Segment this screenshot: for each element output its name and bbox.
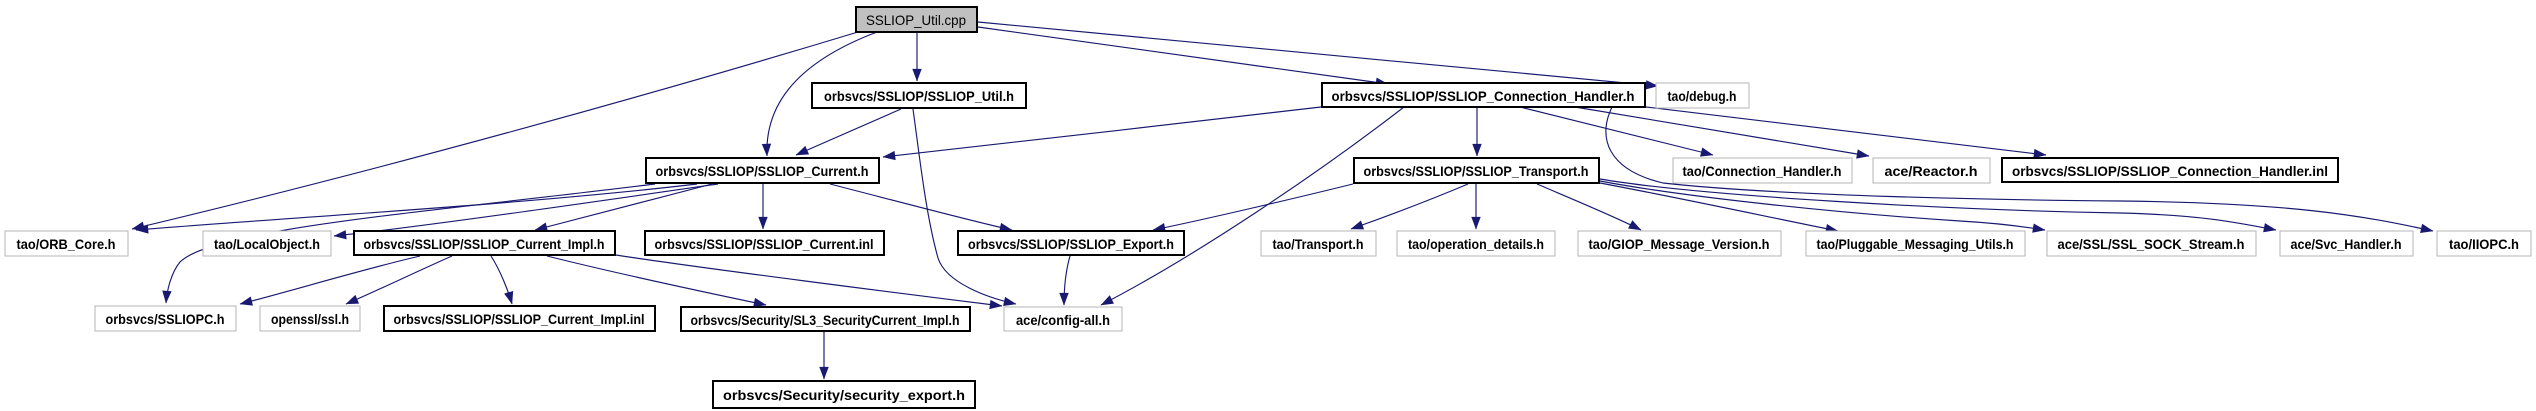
- node tao/Transport.h: [1261, 231, 1376, 256]
- node orbsvcs/Security/security_export.h: [713, 381, 975, 408]
- svg-text:orbsvcs/Security/SL3_SecurityC: orbsvcs/Security/SL3_SecurityCurrent_Imp…: [691, 312, 960, 328]
- node tao/IIOPC.h: [2437, 231, 2531, 256]
- wire SSLIOP_Current.h -> SSLIOP_Export.h: [830, 184, 1012, 230]
- node orbsvcs/SSLIOP/SSLIOP_Current_Impl.h: [354, 231, 615, 255]
- wire SSLIOP_Current_Impl.h -> SSLIOP_Current_Impl.inl: [491, 256, 512, 304]
- svg-text:openssl/ssl.h: openssl/ssl.h: [271, 311, 349, 327]
- svg-text:tao/Transport.h: tao/Transport.h: [1273, 236, 1364, 252]
- svg-text:orbsvcs/SSLIOP/SSLIOP_Util.h: orbsvcs/SSLIOP/SSLIOP_Util.h: [824, 88, 1014, 104]
- wire SSLIOP_Util.h -> SSLIOP_Current.h: [796, 109, 901, 155]
- wire SSLIOP_Util.h -> ace/config-all.h: [913, 109, 1016, 304]
- wire SSLIOP_Current.h -> orbsvcs/SSLIOPC.h: [166, 184, 655, 303]
- svg-text:orbsvcs/Security/security_expo: orbsvcs/Security/security_export.h: [723, 387, 965, 403]
- node tao/Pluggable_Messaging_Utils.h: [1806, 231, 2025, 256]
- svg-text:orbsvcs/SSLIOP/SSLIOP_Current_: orbsvcs/SSLIOP/SSLIOP_Current_Impl.h: [364, 236, 605, 252]
- wire SSLIOP_Transport.h -> tao/GIOP_Message_Version.h: [1537, 184, 1641, 230]
- svg-text:tao/Connection_Handler.h: tao/Connection_Handler.h: [1683, 163, 1842, 179]
- wire SSLIOP_Util.cpp -> tao/debug.h: [978, 22, 1658, 86]
- svg-text:tao/operation_details.h: tao/operation_details.h: [1408, 236, 1544, 252]
- wire SSLIOP_Connection_Handler.h -> ace/Reactor.h: [1575, 107, 1869, 156]
- wire SSLIOP_Connection_Handler.h -> tao/Connection_Handler.h: [1520, 107, 1713, 155]
- wire SSLIOP_Util.cpp -> orbsvcs/SSLIOP/SSLIOP_Connection_Handler.h: [978, 27, 1388, 84]
- wire SSLIOP_Transport.h -> ace/SSL/SSL_SOCK_Stream.h: [1600, 181, 2045, 230]
- wire SSLIOP_Connection_Handler.h -> SSLIOP_Transport.h: [1476, 107, 1478, 156]
- wire SSLIOP_Transport.h -> tao/operation_details.h: [1475, 184, 1477, 229]
- svg-text:orbsvcs/SSLIOP/SSLIOP_Connecti: orbsvcs/SSLIOP/SSLIOP_Connection_Handler…: [1332, 88, 1635, 104]
- svg-text:ace/Reactor.h: ace/Reactor.h: [1885, 163, 1978, 179]
- node orbsvcs/Security/SL3_SecurityCurrent_Impl.h: [681, 307, 970, 331]
- wire SSLIOP_Current.h -> tao/ORB_Core.h: [136, 184, 697, 230]
- svg-text:orbsvcs/SSLIOP/SSLIOP_Export.h: orbsvcs/SSLIOP/SSLIOP_Export.h: [968, 236, 1174, 252]
- svg-text:orbsvcs/SSLIOP/SSLIOP_Current.: orbsvcs/SSLIOP/SSLIOP_Current.inl: [655, 236, 874, 252]
- node tao/Connection_Handler.h: [1673, 158, 1852, 183]
- wire SSLIOP_Util.cpp -> orbsvcs/SSLIOP/SSLIOP_Current.h: [767, 32, 877, 156]
- node openssl/ssl.h: [260, 306, 360, 331]
- wire SSLIOP_Current_Impl.h -> ace/config-all.h: [616, 255, 1002, 306]
- svg-text:orbsvcs/SSLIOP/SSLIOP_Current.: orbsvcs/SSLIOP/SSLIOP_Current.h: [656, 163, 869, 179]
- wire SSLIOP_Current_Impl.h -> openssl/ssl.h: [346, 256, 452, 304]
- node orbsvcs/SSLIOP/SSLIOP_Current.h: [646, 158, 879, 183]
- svg-text:ace/SSL/SSL_SOCK_Stream.h: ace/SSL/SSL_SOCK_Stream.h: [2058, 236, 2245, 252]
- svg-text:tao/LocalObject.h: tao/LocalObject.h: [214, 236, 320, 252]
- svg-text:tao/ORB_Core.h: tao/ORB_Core.h: [17, 236, 116, 252]
- node ace/config-all.h: [1004, 307, 1122, 331]
- node tao/LocalObject.h: [203, 231, 331, 256]
- node tao/debug.h: [1656, 83, 1749, 108]
- svg-text:ace/Svc_Handler.h: ace/Svc_Handler.h: [2291, 236, 2402, 252]
- wire SSLIOP_Current.h -> SSLIOP_Current.inl: [762, 184, 764, 229]
- wire SSLIOP_Current.h -> tao/LocalObject.h: [334, 184, 718, 236]
- node orbsvcs/SSLIOP/SSLIOP_Current_Impl.inl: [384, 306, 655, 331]
- node orbsvcs/SSLIOP/SSLIOP_Transport.h: [1354, 158, 1599, 183]
- wire SSLIOP_Connection_Handler.h -> SSLIOP_Connection_Handler.inl: [1646, 107, 2046, 155]
- svg-text:orbsvcs/SSLIOP/SSLIOP_Current_: orbsvcs/SSLIOP/SSLIOP_Current_Impl.inl: [394, 311, 645, 327]
- node tao/GIOP_Message_Version.h: [1578, 231, 1781, 256]
- svg-text:tao/IIOPC.h: tao/IIOPC.h: [2449, 236, 2519, 252]
- svg-text:orbsvcs/SSLIOPC.h: orbsvcs/SSLIOPC.h: [106, 311, 225, 327]
- wire SSLIOP_Connection_Handler.h -> ace/config-all.h: [1101, 107, 1404, 305]
- node orbsvcs/SSLIOP/SSLIOP_Connection_Handler.h: [1322, 83, 1645, 107]
- wire SSLIOP_Current_Impl.h -> SL3_SecurityCurrent_Impl.h: [547, 256, 766, 305]
- wire SSLIOP_Util.cpp -> tao/ORB_Core.h: [132, 32, 858, 229]
- node ace/Svc_Handler.h: [2280, 231, 2413, 256]
- wire SSLIOP_Current_Impl.h -> orbsvcs/SSLIOPC.h: [240, 256, 420, 304]
- wire SL3_SecurityCurrent_Impl.h -> security_export.h: [823, 331, 825, 379]
- svg-text:tao/Pluggable_Messaging_Utils.: tao/Pluggable_Messaging_Utils.h: [1817, 236, 2014, 252]
- wire SSLIOP_Transport.h -> tao/Pluggable_Messaging_Utils.h: [1600, 183, 1838, 231]
- node orbsvcs/SSLIOP/SSLIOP_Connection_Handler.inl: [2002, 158, 2338, 182]
- node ace/Reactor.h: [1873, 158, 1990, 183]
- wire SSLIOP_Connection_Handler.h -> SSLIOP_Current.h: [883, 107, 1321, 157]
- wire SSLIOP_Transport.h -> ace/Svc_Handler.h: [1600, 179, 2276, 230]
- svg-text:tao/GIOP_Message_Version.h: tao/GIOP_Message_Version.h: [1589, 236, 1770, 252]
- wire SSLIOP_Current.h -> SSLIOP_Current_Impl.h: [535, 184, 712, 230]
- node ace/SSL/SSL_SOCK_Stream.h: [2047, 231, 2256, 256]
- node orbsvcs/SSLIOP/SSLIOP_Util.h: [812, 83, 1026, 108]
- node orbsvcs/SSLIOP/SSLIOP_Current.inl: [645, 231, 884, 255]
- wire SSLIOP_Transport.h -> SSLIOP_Export.h: [1153, 184, 1353, 230]
- node SSLIOP_Util.cpp (root): [856, 7, 977, 32]
- wire SSLIOP_Transport.h -> tao/Transport.h: [1351, 184, 1468, 229]
- svg-text:orbsvcs/SSLIOP/SSLIOP_Transpor: orbsvcs/SSLIOP/SSLIOP_Transport.h: [1364, 163, 1589, 179]
- node tao/operation_details.h: [1397, 231, 1555, 256]
- node orbsvcs/SSLIOP/SSLIOP_Export.h: [958, 231, 1184, 255]
- svg-text:orbsvcs/SSLIOP/SSLIOP_Connecti: orbsvcs/SSLIOP/SSLIOP_Connection_Handler…: [2012, 163, 2328, 179]
- node orbsvcs/SSLIOPC.h: [95, 306, 236, 331]
- node tao/ORB_Core.h: [5, 231, 128, 256]
- svg-text:tao/debug.h: tao/debug.h: [1668, 88, 1737, 104]
- svg-text:SSLIOP_Util.cpp: SSLIOP_Util.cpp: [866, 12, 966, 28]
- wire SSLIOP_Connection_Handler.h -> tao/IIOPC.h: [1606, 107, 2433, 231]
- wire SSLIOP_Export.h -> ace/config-all.h: [1064, 256, 1070, 305]
- svg-text:ace/config-all.h: ace/config-all.h: [1016, 312, 1110, 328]
- wire SSLIOP_Util.cpp -> orbsvcs/SSLIOP/SSLIOP_Util.h: [916, 32, 918, 81]
